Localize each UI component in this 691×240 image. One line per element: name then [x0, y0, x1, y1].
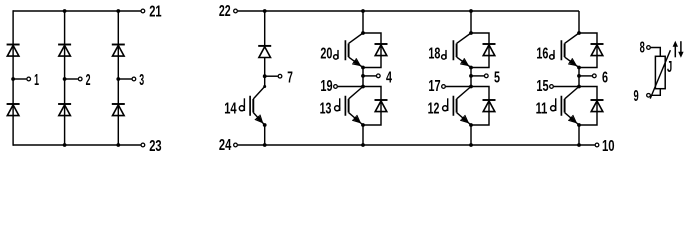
phase 3 lower diode branch wire [579, 87, 597, 126]
aux junction phase 1 [361, 85, 365, 89]
thermistor top wire [651, 48, 661, 57]
phase 2 lower emitter junction [469, 123, 473, 127]
junction top rail brake leg [263, 9, 267, 13]
terminal 3 [132, 77, 136, 81]
phase 2 lower diode branch wire [471, 87, 489, 126]
svg-text:8: 8 [640, 39, 645, 56]
temperature up arrow [673, 41, 678, 58]
phase 1 lower diode branch wire [363, 87, 381, 126]
junction top rail phase 2 [469, 9, 473, 13]
svg-text:17: 17 [428, 78, 440, 95]
phase 3 emitter junction [577, 66, 581, 70]
phase 3 upper freewheel diode [591, 44, 604, 56]
terminal 21 [141, 9, 145, 13]
phase 2 mid vertical wire [470, 68, 472, 87]
phase 3 upper diode branch wire [579, 33, 597, 68]
phase 1 top stub wire [362, 11, 364, 33]
rectifier upper diode D21 [58, 45, 71, 57]
terminal 15 [550, 85, 554, 89]
svg-text:4: 4 [386, 70, 392, 87]
node 4 junction [361, 74, 365, 78]
phase 1 mid vertical wire [362, 68, 364, 87]
terminal 8 [647, 46, 651, 50]
phase 1 upper diode branch wire [363, 33, 381, 68]
terminal 23 [141, 143, 145, 147]
node 2 junction [63, 77, 67, 81]
svg-text:J: J [667, 59, 672, 76]
svg-text:10: 10 [602, 138, 615, 155]
phase 2 lower freewheel diode [483, 100, 496, 112]
rectifier leg 1 vertical wire [12, 10, 14, 145]
phase 1 upper freewheel diode [375, 44, 388, 56]
terminal 5 [484, 74, 488, 78]
svg-text:1: 1 [34, 72, 39, 89]
terminal 24 [234, 143, 238, 147]
aux junction phase 3 [577, 85, 581, 89]
node 3 stub wire [118, 78, 131, 80]
node 5 stub wire [471, 75, 484, 77]
phase 2 upper freewheel diode [483, 44, 496, 56]
terminal 1 [27, 77, 31, 81]
junction bottom rail phase 2 [469, 143, 473, 147]
rectifier top rail wire (to pin 21) [13, 10, 141, 12]
node 7 stub wire [265, 75, 278, 77]
inverter top rail wire [238, 10, 579, 12]
thermistor diagonal stroke [650, 50, 670, 98]
junction top rail phase 1 [361, 9, 365, 13]
rectifier leg 2 vertical wire [64, 11, 66, 145]
junction bottom rail phase 3 [577, 143, 581, 147]
terminal 9 [647, 93, 651, 97]
svg-text:13: 13 [320, 101, 332, 118]
phase 1 collector junction [361, 31, 365, 35]
brake leg wire diode to node 7 [264, 58, 266, 87]
phase 3 bottom stub wire [578, 125, 580, 145]
phase 2 emitter junction [469, 66, 473, 70]
node 1 stub wire [13, 78, 26, 80]
svg-text:5: 5 [494, 70, 500, 87]
terminal 10 [595, 143, 599, 147]
terminal 7 [278, 74, 282, 78]
phase 3 collector junction [577, 31, 581, 35]
rectifier upper diode D31 [112, 45, 125, 57]
phase 2 bottom stub wire [470, 125, 472, 145]
node 2 stub wire [65, 78, 78, 80]
phase 2 upper IGBT (gate pin 18) [442, 33, 471, 68]
node 4 stub wire [363, 75, 376, 77]
node 6 stub wire [579, 75, 592, 77]
phase 1 lower IGBT (gate pin 13) [335, 87, 363, 126]
phase 3 mid vertical wire [578, 68, 580, 87]
svg-text:20: 20 [320, 46, 332, 63]
brake emitter junction [263, 123, 267, 127]
svg-text:18: 18 [428, 46, 440, 63]
svg-text:21: 21 [149, 4, 161, 21]
brake diode D7 [258, 46, 271, 58]
terminal 17 [442, 85, 446, 89]
junction top rail leg 3 [116, 9, 120, 13]
aux emitter stub wire pin 17 [446, 86, 471, 88]
thermistor R1 body [655, 56, 665, 88]
phase 2 upper diode branch wire [471, 33, 489, 68]
svg-text:7: 7 [287, 70, 293, 87]
terminal 4 [376, 74, 380, 78]
phase 3 upper IGBT (gate pin 16) [550, 33, 579, 68]
phase 1 upper IGBT (gate pin 20) [334, 33, 363, 68]
aux emitter stub wire pin 19 [338, 86, 363, 88]
node 6 junction [577, 74, 581, 78]
terminal 19 [334, 85, 338, 89]
svg-text:22: 22 [219, 3, 231, 20]
node 1 junction [11, 77, 15, 81]
svg-text:2: 2 [86, 72, 91, 89]
junction bottom rail brake leg [263, 143, 267, 147]
svg-text:11: 11 [536, 101, 548, 118]
thermistor bottom wire [651, 89, 661, 96]
phase 1 emitter junction [361, 66, 365, 70]
phase 2 lower IGBT (gate pin 12) [443, 87, 471, 126]
node 5 junction [469, 74, 473, 78]
svg-text:14: 14 [224, 101, 236, 118]
rectifier upper diode D11 [7, 45, 20, 57]
temperature down arrow [678, 41, 683, 58]
rectifier lower diode D12 [7, 104, 20, 116]
node 7 junction [263, 74, 267, 78]
svg-text:15: 15 [536, 78, 548, 95]
svg-text:6: 6 [602, 70, 608, 87]
brake collector bend [263, 85, 266, 88]
phase 3 lower IGBT (gate pin 11) [551, 87, 579, 126]
svg-text:12: 12 [428, 101, 440, 118]
aux emitter stub wire pin 15 [554, 86, 579, 88]
phase 2 top stub wire [470, 11, 472, 33]
junction bottom rail leg 3 [116, 143, 120, 147]
node 3 junction [116, 77, 120, 81]
junction top rail leg 2 [63, 9, 67, 13]
rectifier lower diode D32 [112, 104, 125, 116]
svg-text:19: 19 [320, 78, 332, 95]
terminal 2 [78, 77, 82, 81]
brake IGBT T7 (gate pin 14) [239, 87, 264, 126]
inverter bottom rail wire (to pin 10) [238, 144, 595, 146]
svg-text:24: 24 [219, 137, 231, 154]
brake leg lower wire [264, 125, 266, 145]
phase 1 lower freewheel diode [375, 100, 388, 112]
phase 1 lower emitter junction [361, 123, 365, 127]
brake leg upper wire [264, 11, 266, 46]
phase 2 collector junction [469, 31, 473, 35]
terminal 22 [234, 9, 238, 13]
phase 3 lower freewheel diode [591, 100, 604, 112]
junction bottom rail phase 1 [361, 143, 365, 147]
svg-text:9: 9 [634, 88, 639, 105]
svg-text:23: 23 [149, 138, 161, 155]
aux junction phase 2 [469, 85, 473, 89]
svg-text:3: 3 [139, 72, 144, 89]
phase 3 top stub wire [578, 11, 580, 33]
rectifier leg 3 vertical wire [117, 11, 119, 145]
svg-text:16: 16 [536, 46, 548, 63]
rectifier bottom rail wire (to pin 23) [13, 144, 141, 146]
rectifier lower diode D22 [58, 104, 71, 116]
phase 1 bottom stub wire [362, 125, 364, 145]
junction bottom rail leg 2 [63, 143, 67, 147]
phase 3 lower emitter junction [577, 123, 581, 127]
terminal 6 [592, 74, 596, 78]
